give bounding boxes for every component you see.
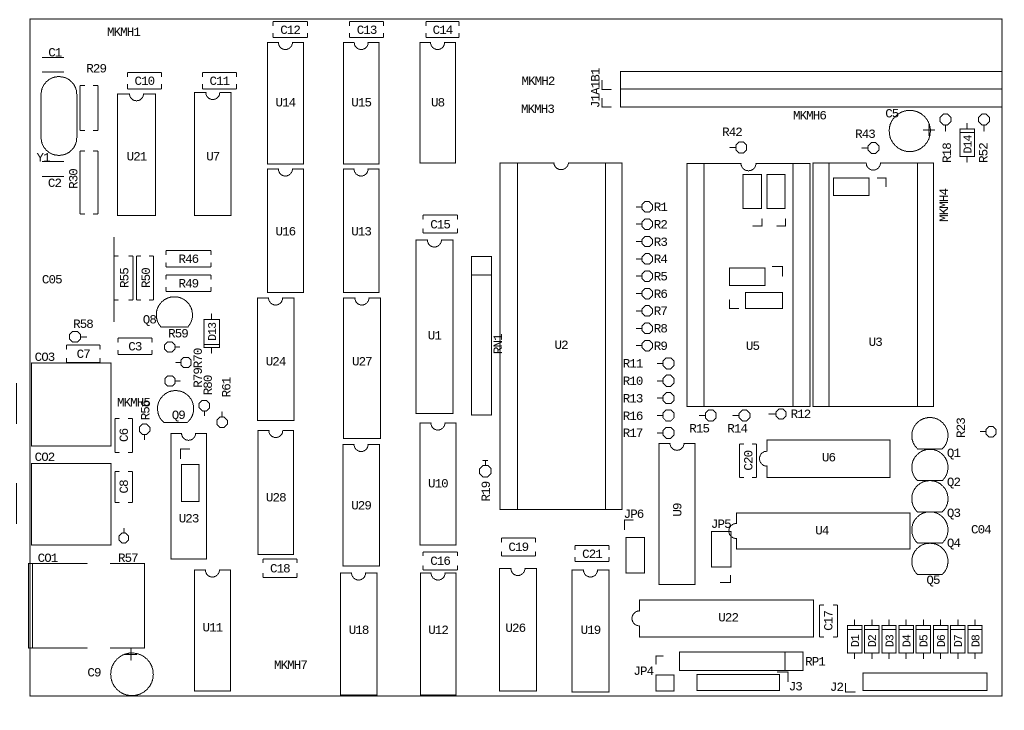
label MKMH1 [107,26,140,40]
label MKMH4 [938,189,952,222]
label MKMH7 [274,659,307,673]
svg-text:U18: U18 [349,624,369,638]
svg-text:D13: D13 [207,322,220,341]
IC U23 [171,433,207,559]
label C04 [971,524,991,538]
resistor R80 [199,375,216,416]
jumper JP6 [624,508,645,573]
svg-text:Y1: Y1 [37,152,51,166]
svg-text:R18: R18 [941,143,955,163]
resistor R9 [636,340,667,354]
svg-text:Q9: Q9 [172,409,186,423]
capacitor C17 [819,605,837,637]
capacitor C15 [423,215,457,233]
label J1A1B1 [589,68,603,108]
resistor R11 [623,358,674,372]
svg-text:D2: D2 [867,634,880,647]
U23 inner rect [181,465,199,502]
connector J3 [697,672,802,695]
jumper JP5 [711,518,731,582]
svg-text:R12: R12 [791,408,811,422]
IC U9 [659,443,695,584]
IC U1 [416,240,453,413]
capacitor C2 [42,162,64,192]
connector CO3 edge tick [16,383,18,424]
svg-text:U24: U24 [266,356,286,370]
resistor R1 [636,201,667,215]
svg-text:U23: U23 [179,512,199,526]
transistor Q2 [912,449,961,489]
connector CO2 [32,451,111,545]
connector J2 [830,673,987,695]
resistor R49 [166,275,211,292]
corner mark J1A [602,80,611,90]
resistor R57 [118,528,138,566]
IC U18 [341,573,377,695]
svg-text:R70: R70 [192,348,206,368]
capacitor C5 [885,108,935,152]
crystal Y1 [37,77,77,166]
resistor R3 [636,236,667,250]
svg-text:R23: R23 [955,418,969,438]
svg-text:C21: C21 [582,548,602,562]
svg-text:J3: J3 [789,681,803,695]
svg-text:U8: U8 [431,97,445,111]
svg-text:J1A1B1: J1A1B1 [589,68,603,108]
resistor R23 [955,418,996,438]
capacitor C6 [115,418,133,452]
svg-text:R17: R17 [623,427,643,441]
svg-text:R80: R80 [202,375,216,395]
resistor R2 [636,219,667,233]
resistor R70 [175,348,206,368]
capacitor C10 [128,73,162,89]
IC U27 [344,298,381,438]
capacitor C18 [263,559,297,578]
svg-text:R49: R49 [178,277,198,291]
svg-text:D14: D14 [963,135,976,154]
resistor R5 [636,271,667,285]
svg-text:C7: C7 [77,348,91,362]
svg-text:C17: C17 [823,611,837,631]
svg-text:C3: C3 [128,341,142,355]
diode D8 [968,620,983,660]
diode D7 [951,620,967,660]
IC U6 [760,440,891,477]
svg-text:D4: D4 [902,634,915,647]
IC U21 [118,94,156,216]
resistor R30 [68,151,99,214]
IC U4 [729,513,910,549]
transistor Q1 [912,418,961,461]
svg-text:JP4: JP4 [633,665,653,679]
svg-text:U15: U15 [351,97,371,111]
svg-text:R7: R7 [654,305,668,319]
resistor R19 [480,460,494,501]
svg-text:MKMH4: MKMH4 [938,189,952,222]
resistor R16 [623,410,674,424]
pad R52 [977,114,991,163]
svg-text:U21: U21 [127,151,147,165]
capacitor C1 [42,46,64,72]
diode D13 [204,313,220,353]
svg-text:R3: R3 [654,236,668,250]
svg-text:U9: U9 [671,503,685,517]
transistor Q4 [912,512,961,551]
resistor R42 [722,126,747,153]
svg-text:U16: U16 [275,226,295,240]
svg-text:C04: C04 [971,524,991,538]
U5 inner rect A [743,174,761,208]
capacitor C12 [273,22,307,38]
svg-text:U12: U12 [428,624,448,638]
svg-text:CO3: CO3 [35,351,55,365]
svg-text:U3: U3 [869,336,883,350]
IC U16 [267,169,303,292]
connector CO2 edge tick [16,483,18,524]
IC U29 [343,445,379,567]
diode D14 [960,123,975,163]
svg-text:R5: R5 [654,271,668,285]
svg-text:Q4: Q4 [947,537,961,551]
svg-text:Q1: Q1 [947,447,961,461]
resistor R46 [166,251,211,268]
svg-text:Q3: Q3 [947,507,961,521]
pad R18 [940,114,955,163]
svg-text:U4: U4 [815,524,829,538]
resistor R43 [855,128,879,154]
svg-text:R30: R30 [68,169,82,189]
svg-text:C1: C1 [48,46,62,60]
U23 corner mark [181,449,191,459]
svg-text:C10: C10 [134,75,154,89]
IC U28 [258,431,294,555]
capacitor C13 [350,22,384,38]
resistor R8 [636,323,667,337]
svg-text:U13: U13 [351,226,371,240]
svg-text:R56: R56 [140,400,154,420]
resistor R29 [80,63,106,131]
resistor R17 [623,427,674,441]
svg-text:R9: R9 [654,340,668,354]
resistor network RN1 [472,256,507,415]
corner mark J1B [602,98,611,107]
svg-text:R4: R4 [654,253,668,267]
resistor pack RP1 [680,652,826,671]
capacitor C16 [423,552,457,570]
label C05 [42,274,62,288]
capacitor C19 [501,538,535,556]
IC U24 [257,298,294,421]
svg-text:C8: C8 [118,480,132,494]
transistor Q9 [158,391,194,423]
capacitor C9 [87,648,153,695]
svg-text:R16: R16 [623,410,643,424]
svg-text:R1: R1 [654,201,668,215]
svg-text:D1: D1 [850,634,863,647]
label MKMH2 [521,75,554,89]
svg-text:R14: R14 [727,422,747,436]
svg-text:R6: R6 [654,288,668,302]
capacitor C3 [118,338,152,355]
svg-text:C20: C20 [742,450,756,470]
IC U3 [813,163,934,407]
diode D5 [916,620,932,660]
IC U26 [499,569,536,692]
capacitor C14 [426,22,459,38]
svg-text:U2: U2 [554,339,568,353]
IC U13 [343,169,379,292]
diode D6 [934,620,949,660]
IC U15 [344,43,380,165]
svg-text:R10: R10 [623,375,643,389]
svg-text:R42: R42 [722,126,742,140]
diode D1 [848,620,863,660]
IC U19 [572,570,609,692]
resistor R6 [636,288,667,302]
svg-text:C2: C2 [48,177,62,191]
resistor R12 [769,408,811,422]
U5 inner rect C [729,268,765,286]
IC U5 [687,163,810,406]
resistor R61 [217,377,235,427]
svg-text:U29: U29 [351,499,371,513]
svg-text:Q2: Q2 [947,476,961,490]
U3 corner mark [877,178,886,187]
svg-text:R2: R2 [654,219,668,233]
svg-text:U1: U1 [428,330,442,344]
capacitor C7 [66,345,100,363]
svg-text:U11: U11 [202,621,222,635]
svg-text:JP5: JP5 [711,518,731,532]
svg-text:MKMH1: MKMH1 [107,26,140,40]
U5 inner rect D [746,293,783,309]
svg-text:C16: C16 [430,555,450,569]
resistor R79 [165,368,206,388]
connector J1 [620,71,1002,107]
svg-text:D5: D5 [919,634,932,647]
IC U14 [267,43,303,165]
label MKMH6 [793,109,826,123]
IC U10 [420,423,456,545]
U3 inner rect [834,178,870,196]
svg-text:U14: U14 [275,97,295,111]
svg-text:J2: J2 [830,681,844,695]
capacitor C8 [115,471,133,502]
capacitor C21 [575,546,609,562]
svg-text:D8: D8 [970,634,983,647]
svg-text:R61: R61 [220,377,234,397]
svg-text:U5: U5 [746,340,760,354]
diode D3 [882,620,897,660]
svg-text:C14: C14 [433,24,453,38]
svg-text:R59: R59 [168,327,188,341]
connector CO3 [32,351,111,446]
svg-text:D7: D7 [953,635,966,647]
svg-text:U22: U22 [718,611,738,625]
IC U2 [500,163,622,509]
svg-text:C13: C13 [357,24,377,38]
svg-text:R19: R19 [480,481,494,501]
transistor Q5 [912,543,948,588]
svg-text:C12: C12 [280,24,300,38]
svg-text:R15: R15 [689,422,709,436]
resistor R14 [727,410,750,436]
svg-text:MKMH7: MKMH7 [274,659,307,673]
resistor R59 [164,327,188,352]
IC U7 [195,93,232,216]
IC U8 [420,43,456,164]
diode D4 [899,620,914,660]
resistor R13 [623,392,674,406]
svg-text:Q8: Q8 [143,314,157,328]
svg-text:U10: U10 [428,477,448,491]
U5 inner rect B [767,174,785,208]
svg-text:C05: C05 [42,274,62,288]
capacitor C11 [203,73,237,89]
svg-text:R55: R55 [119,268,133,288]
svg-text:C19: C19 [508,541,528,555]
label MKMH3 [521,103,554,117]
svg-text:R43: R43 [855,128,875,142]
svg-text:MKMH3: MKMH3 [521,103,554,117]
svg-text:C5: C5 [885,108,899,122]
svg-text:D3: D3 [884,634,897,647]
svg-text:C18: C18 [270,562,290,576]
svg-text:RN1: RN1 [492,334,506,354]
resistor R50 [137,256,154,300]
svg-text:D6: D6 [936,634,949,647]
transistor Q3 [912,481,961,521]
svg-text:R52: R52 [977,143,991,163]
svg-text:R13: R13 [623,392,643,406]
U5 corner mark b [776,219,785,227]
svg-text:U26: U26 [505,622,525,636]
resistor R4 [636,253,667,267]
diode D2 [865,620,880,660]
svg-text:CO1: CO1 [38,552,58,566]
IC U11 [194,570,230,691]
svg-text:C6: C6 [118,428,132,442]
svg-text:U27: U27 [352,356,372,370]
transistor Q8 [143,297,193,328]
resistor R58 [70,318,94,342]
svg-text:R50: R50 [140,268,154,288]
marking line [113,237,115,322]
svg-text:Q5: Q5 [926,574,940,588]
jumper JP4 [633,656,674,691]
svg-text:U7: U7 [206,151,220,165]
IC U22 [632,600,814,637]
svg-text:RP1: RP1 [805,655,825,669]
svg-text:CO2: CO2 [35,451,55,465]
svg-text:U28: U28 [266,491,286,505]
U5 corner mark a [752,219,762,227]
svg-text:U6: U6 [822,451,836,465]
capacitor C20 [740,444,757,477]
svg-text:R46: R46 [178,253,198,267]
svg-text:MKMH6: MKMH6 [793,109,826,123]
resistor R10 [623,375,674,389]
svg-text:R29: R29 [86,63,106,77]
resistor R15 [689,410,716,436]
label MKMH5 [117,396,150,410]
U5 corner mark d [729,300,739,309]
svg-text:U19: U19 [581,624,601,638]
resistor R55 [114,256,133,300]
svg-text:R8: R8 [654,323,668,337]
svg-text:R11: R11 [623,358,643,372]
svg-text:C15: C15 [430,218,450,232]
svg-text:C11: C11 [209,75,229,89]
connector CO1 [29,552,145,648]
U5 corner mark c [772,266,783,276]
resistor R7 [636,305,667,319]
svg-text:MKMH2: MKMH2 [521,75,554,89]
resistor R56 [139,400,153,440]
svg-text:C9: C9 [87,667,101,681]
svg-text:R58: R58 [73,318,93,332]
IC U12 [420,573,456,695]
